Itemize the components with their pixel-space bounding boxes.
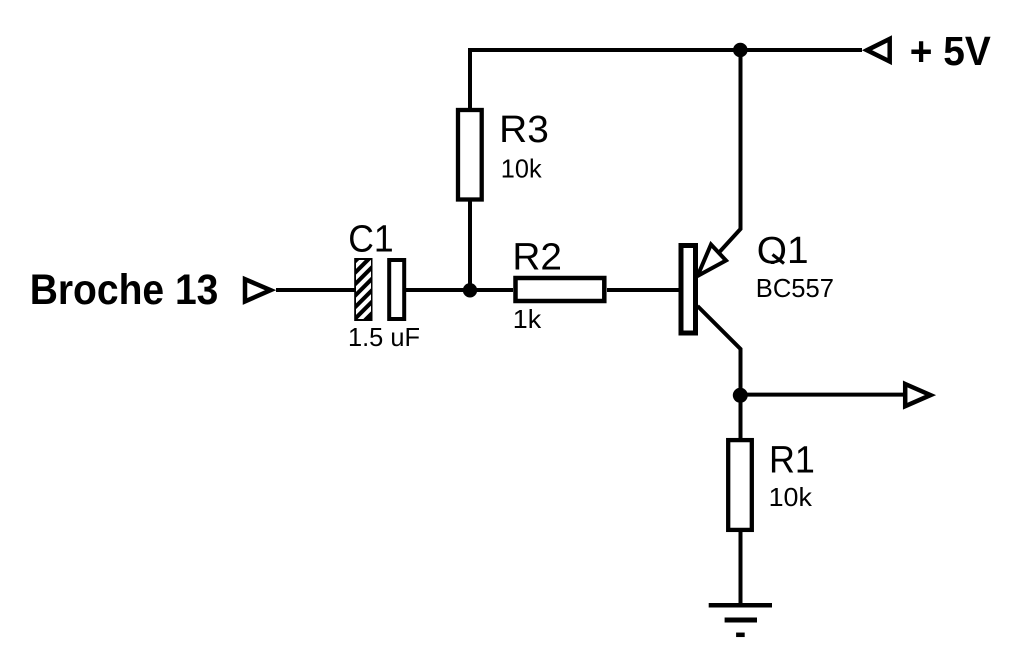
resistor R2 body <box>516 278 605 301</box>
svg-text:Broche 13: Broche 13 <box>30 266 219 314</box>
input terminal triangle (Broche 13) <box>245 279 271 301</box>
capacitor C1 right plate <box>389 260 404 319</box>
node: output junction dot <box>733 388 748 403</box>
svg-text:BC557: BC557 <box>756 273 834 303</box>
svg-text:+ 5V: + 5V <box>910 28 992 74</box>
wire: R2 to base <box>607 288 679 292</box>
ground symbol <box>709 605 772 635</box>
wire: emitter vertical from +5V rail <box>698 50 741 276</box>
svg-text:R1: R1 <box>769 439 815 481</box>
svg-text:10k: 10k <box>769 482 813 512</box>
svg-text:C1: C1 <box>348 219 393 261</box>
wire: collector down to output node <box>698 306 741 395</box>
output terminal triangle <box>905 384 930 406</box>
svg-text:10k: 10k <box>501 154 543 184</box>
resistor R1 body <box>728 440 752 530</box>
svg-text:R3: R3 <box>499 109 549 151</box>
node: junction dot base/R3 <box>463 283 477 297</box>
wire: output node to output terminal <box>741 393 905 397</box>
resistor R3 body <box>458 110 482 200</box>
wire: +5V top rail <box>470 50 862 110</box>
wire: C1 to R2 <box>406 288 513 292</box>
svg-text:1.5 uF: 1.5 uF <box>348 322 420 352</box>
node: junction dot at +5V rail <box>733 43 748 58</box>
wire: output node to R1 <box>739 395 743 438</box>
svg-text:R2: R2 <box>512 237 562 279</box>
label Q1 tail stroke <box>773 255 785 264</box>
wire: input to C1 <box>276 288 356 292</box>
svg-text:1k: 1k <box>513 304 542 334</box>
transistor Q1 emitter arrow (PNP) <box>698 245 727 277</box>
wire: R3 bottom to base node <box>468 200 472 290</box>
power terminal +5V triangle <box>867 39 890 62</box>
wire: R1 to ground <box>739 530 743 605</box>
capacitor C1 left plate (hatched) <box>354 258 372 321</box>
transistor Q1 base bar <box>681 246 696 334</box>
